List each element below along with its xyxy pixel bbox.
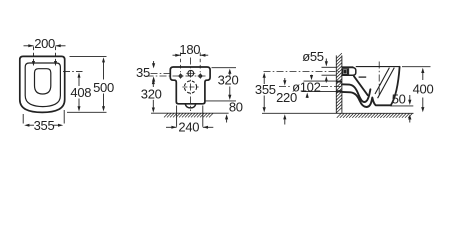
ext line rim top [402,66,431,68]
svg-text:500: 500 [93,80,114,95]
svg-text:320: 320 [218,73,239,88]
dim 180 right arrow [200,54,208,56]
dim 400 down arrow [422,98,424,110]
dim 355 right arrow [54,124,59,126]
WC back-view outline [170,67,210,104]
outlet pipe lower wall [336,90,342,92]
dim ø55 down arrow [325,59,327,64]
inlet spigot divider [348,68,350,75]
dim 50 down arrow [409,95,411,102]
wall hatching [336,53,342,58]
dim 180 left arrow [173,54,181,56]
fixing holes axis (dash-dot) [147,75,208,77]
dim 240 ext left [176,106,178,127]
dim 400 up arrow [422,71,424,80]
vertical centerline [190,58,192,112]
svg-text:408: 408 [70,85,91,100]
svg-text:ø102: ø102 [292,79,321,94]
dim 320L up arrow [152,82,154,87]
ext line bottom of pan [67,111,107,113]
wall left edge [335,55,337,113]
svg-text:320: 320 [141,87,162,102]
dim 180 ext left (dash-dot) [180,53,182,73]
dim 220 down arrow [284,78,286,82]
dim 408 down arrow [78,99,80,109]
bowl inner right wall B [378,68,395,99]
ø55 ext bottom [322,74,337,76]
inlet spigot inner block [343,69,348,75]
dim 320R down arrow [229,87,231,97]
inlet spigot top edge [342,66,354,68]
dim 355 left arrow [29,124,34,126]
water line [359,76,367,78]
dim 35 down arrow [153,61,155,65]
dim 35 up arrow [153,80,155,83]
svg-text:240: 240 [178,120,199,135]
dim 220 up arrow [284,119,286,125]
seat top surface [356,66,400,68]
dim 50 up arrow [409,118,411,123]
ø102 ext top [304,80,337,82]
ext line top of pan [70,55,107,57]
floor line (middle view) [151,112,229,114]
drain outlet bump [185,104,196,108]
dim ø102 up arrow [306,96,308,99]
WC pan outline (top view) [20,56,65,112]
wall right edge [341,55,343,113]
bowl front face [391,67,400,106]
bowl inner left wall [354,76,368,95]
svg-text:355: 355 [34,118,55,133]
fixing hole right [199,75,202,78]
dim 200 line right + arrow [56,45,66,47]
trap outer wall + underside [342,92,391,107]
svg-text:180: 180 [179,42,200,57]
floor line (side view) [262,112,414,114]
outlet axis dash-dot [279,85,292,87]
svg-text:80: 80 [229,100,243,115]
dim 320R up arrow [229,72,231,76]
dim 240 right arrow [203,126,214,128]
inlet spigot profile [342,68,356,76]
bowl inner right wall A [375,68,389,94]
inlet axis (dash-dot, left stub) [151,73,171,75]
trap inner wall [342,84,371,102]
dim 240 left arrow [166,126,177,128]
dim 500 up arrow [103,61,105,80]
floor hatching (side view) [337,114,341,118]
dim 408 up arrow [78,76,80,87]
svg-text:400: 400 [413,82,434,97]
fixing hole left [179,75,182,78]
svg-text:200: 200 [34,36,55,51]
dim 355 ext right [63,110,65,124]
dim 355 ext left [22,114,24,124]
water inlet hole [188,70,194,76]
seat ring [25,63,60,107]
dim 408 ref line (dash-dot) [63,71,83,73]
drain hole (dashed circle) [184,81,196,93]
svg-text:50: 50 [392,91,406,106]
outlet pipe upper wall [336,81,342,83]
dim 200 ext line right (dashed, arrow down) [55,47,57,63]
floor hatching (middle view) [164,113,168,117]
underside ext line [391,105,414,107]
bowl vertical axis (dash-dot) [378,62,380,97]
dim 200 ext line left (dashed, arrow down) [33,47,35,63]
dim 355S down arrow [263,96,265,110]
ø55 ext top [322,66,337,68]
bowl opening [35,69,51,94]
dim 240 ext right [202,106,204,127]
dim 500 down arrow [103,94,105,109]
dim 80 up arrow [226,118,228,123]
svg-text:355: 355 [255,82,276,97]
ext line flange top right [212,67,237,69]
dim 320L down arrow [152,100,154,110]
svg-text:35: 35 [136,65,150,80]
ext line body bottom right [205,100,237,102]
dim ø102 down arrow [311,75,313,77]
dim 180 ext right (dash-dot) [199,53,201,73]
ø102 ext bottom [302,91,337,93]
svg-text:ø55: ø55 [302,49,324,64]
dim 355S up arrow [263,76,265,85]
inlet axis dash-dot [264,71,342,73]
dim 200 line left + arrow [24,45,34,47]
dim ø55 up arrow [325,80,327,83]
